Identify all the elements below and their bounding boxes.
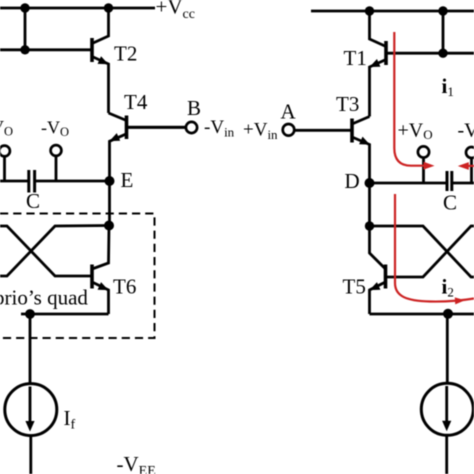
svg-text:prio’s quad: prio’s quad [0,286,88,310]
svg-text:T2: T2 [114,42,137,66]
svg-text:C: C [443,191,457,215]
svg-text:A: A [281,100,297,124]
svg-text:B: B [187,96,201,120]
svg-text:E: E [121,168,134,192]
svg-text:C: C [26,189,40,213]
svg-text:-VO: -VO [458,120,474,143]
svg-text:T6: T6 [113,275,136,299]
svg-text:T4: T4 [124,90,148,114]
svg-text:T3: T3 [336,92,359,116]
svg-text:T5: T5 [343,275,366,299]
svg-text:T1: T1 [344,46,367,70]
svg-text:D: D [345,169,360,193]
